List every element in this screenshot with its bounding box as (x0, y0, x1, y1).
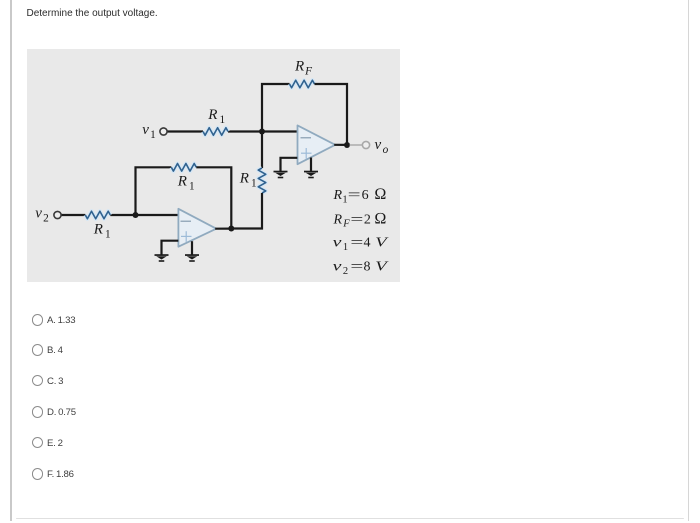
answer option A (32, 314, 43, 325)
left card border (10, 0, 12, 521)
svg-text:2: 2 (343, 266, 348, 277)
op-amp U2 (178, 209, 216, 247)
terminal v2 (54, 211, 61, 218)
U2 plus sign (181, 231, 192, 242)
terminal v1 (160, 128, 167, 135)
U1 output junction dot (344, 142, 350, 148)
answer option F (32, 468, 43, 479)
wire U2 noninverting input to ground C (162, 241, 179, 255)
wire U2 body to ground D (191, 241, 193, 255)
svg-text:1: 1 (343, 242, 348, 253)
svg-text:v2: v2 (35, 205, 49, 224)
wire U1 apex to output node (334, 144, 347, 146)
U2 minus sign (181, 220, 192, 222)
svg-text:RF: RF (294, 58, 312, 77)
ground D (185, 254, 199, 262)
svg-text:R1: R1 (207, 107, 225, 126)
U2 output junction dot (228, 226, 234, 232)
svg-text:V: V (375, 260, 388, 275)
svg-text:=: = (350, 260, 363, 275)
value RF = 2 ohm (333, 211, 387, 230)
svg-text:V: V (375, 236, 388, 251)
wire R1 down to U2 output rail (231, 193, 262, 229)
svg-text:4: 4 (364, 236, 371, 251)
svg-text:R1: R1 (239, 171, 257, 190)
wire feedback to U2 output (196, 167, 231, 228)
svg-text:v1: v1 (142, 122, 156, 141)
question title (27, 8, 158, 19)
resistor R1 (top, series with v1) (203, 128, 228, 136)
node A junction dot (259, 129, 265, 135)
wire R1 to node B (110, 214, 135, 216)
circuit figure panel (27, 49, 400, 282)
svg-text:6: 6 (362, 188, 369, 203)
svg-text:=: = (350, 213, 363, 228)
svg-text:R: R (333, 213, 343, 228)
value v1 = 4 V (333, 236, 389, 253)
wire U1 noninverting input to ground A (281, 158, 298, 172)
wire node B to U2 inverting input (136, 214, 179, 216)
resistor R1 (series with v2) (85, 211, 110, 219)
ground C (155, 254, 169, 262)
U1 plus sign (301, 148, 312, 159)
wire node A to U1 inverting input (262, 130, 298, 132)
node B junction dot (133, 212, 139, 218)
svg-text:Ω: Ω (374, 186, 386, 203)
terminal vo (362, 141, 369, 148)
svg-text:vo: vo (375, 137, 389, 156)
bottom divider line (16, 518, 684, 519)
svg-text:=: = (350, 236, 363, 251)
wire v2 terminal to R1 (61, 214, 85, 216)
answer option D (32, 406, 43, 417)
wire R1 to node A (228, 130, 262, 132)
wire U1 body to ground B (310, 158, 312, 172)
svg-text:v: v (333, 236, 343, 251)
resistor R1 (feedback of U2) (171, 164, 196, 172)
svg-text:Ω: Ω (374, 211, 386, 228)
wire v1 terminal to R1 (167, 130, 203, 132)
svg-text:=: = (348, 188, 361, 203)
right card border (688, 0, 690, 521)
wire node A down to R1 (261, 132, 263, 169)
resistor RF (feedback) (290, 80, 315, 88)
wire feedback riser node B up (136, 167, 172, 216)
svg-text:v: v (333, 260, 343, 275)
wire U1 output to vo terminal (gray) (350, 144, 363, 146)
svg-text:8: 8 (364, 260, 371, 275)
ground A (274, 171, 288, 179)
svg-text:2: 2 (364, 213, 371, 228)
answer option B (32, 344, 43, 355)
wire feedback riser (node A up) (262, 84, 290, 133)
svg-text:R1: R1 (93, 222, 111, 241)
svg-text:R: R (333, 188, 343, 203)
resistor R1 (vertical) (258, 168, 266, 193)
ground B (304, 171, 318, 179)
svg-text:F: F (342, 218, 350, 229)
wire U2 apex to output node (215, 228, 231, 230)
answer option E (32, 437, 43, 448)
value v2 = 8 V (333, 260, 389, 277)
svg-text:R1: R1 (177, 174, 195, 193)
U1 minus sign (301, 137, 312, 139)
value R1 = 6 ohm (333, 186, 387, 205)
op-amp U1 (298, 125, 336, 164)
answer option C (32, 375, 43, 386)
wire RF to U1 output (315, 84, 348, 145)
